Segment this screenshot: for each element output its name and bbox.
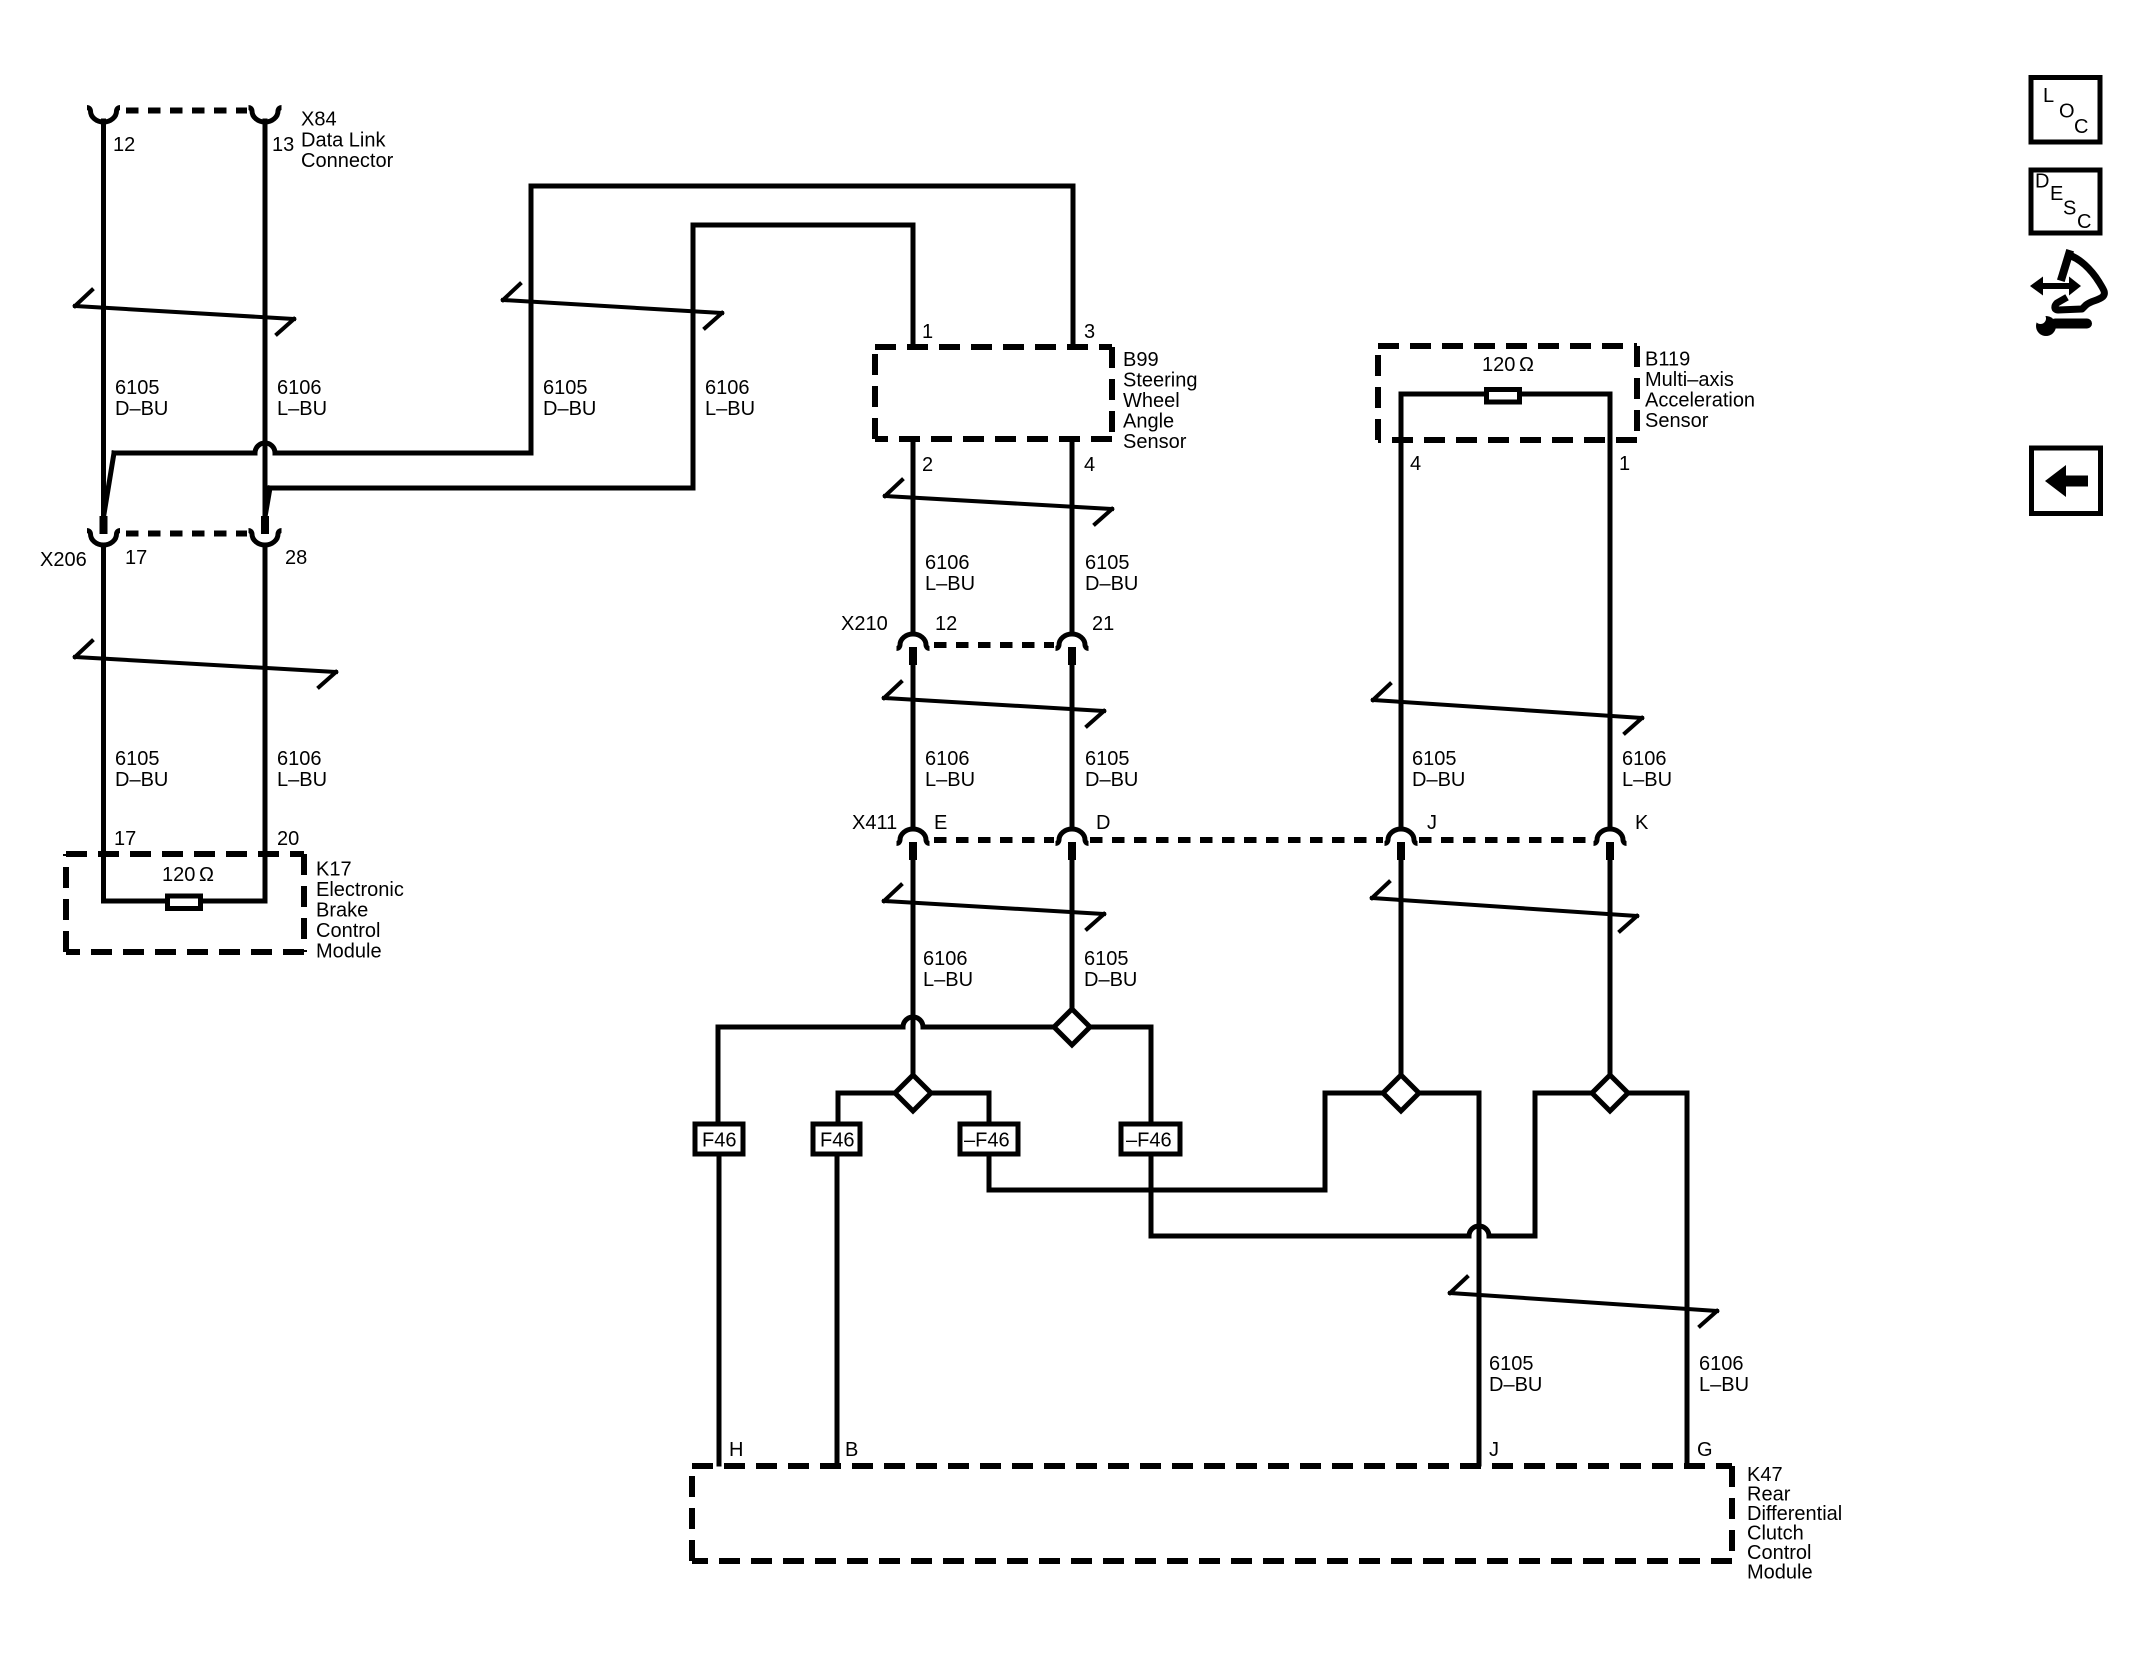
svg-text:Brake: Brake — [316, 900, 368, 922]
wire splice S1 to F46-4 drop — [1090, 1027, 1151, 1121]
svg-text:L–BU: L–BU — [277, 769, 327, 791]
svg-text:Connector: Connector — [301, 150, 394, 172]
svg-text:D–BU: D–BU — [115, 769, 168, 791]
connector X411 pin K stub — [1606, 842, 1614, 860]
wire branch y225 horizontal — [693, 225, 913, 488]
svg-text:E: E — [934, 812, 947, 834]
svg-text:1: 1 — [922, 321, 933, 343]
connector X206 pin 28 terminal — [249, 531, 282, 546]
wire 6106 X411-E down to splice — [911, 859, 916, 1077]
wire 6106 B99-2 to X210-12 — [911, 439, 916, 633]
wire label 6106 L-BU (row D left) — [923, 948, 973, 991]
wire splice S2 left to F46-2 — [838, 1093, 895, 1121]
connector X411 pin D terminal — [1056, 829, 1089, 844]
pin 3 label B99 — [1084, 321, 1095, 343]
svg-text:Sensor: Sensor — [1123, 431, 1187, 453]
splice diamond S1 — [1054, 1009, 1090, 1045]
splice diamond S2 — [895, 1075, 931, 1111]
twisted pair symbol T5 — [884, 682, 1104, 726]
pin 12 label X210 — [935, 613, 957, 635]
pin G label — [1697, 1439, 1713, 1461]
connector X210 pin 12 stub — [909, 647, 917, 665]
twisted pair symbol T8 — [1372, 882, 1637, 931]
connector X84 dashed mating line — [126, 108, 247, 114]
wire splice diagonal into X206-28 — [266, 488, 271, 514]
svg-text:B119: B119 — [1645, 349, 1690, 371]
svg-text:17: 17 — [114, 828, 136, 850]
wire label 6105 D-BU (row D right) — [1084, 948, 1137, 991]
icon DESC button — [2031, 170, 2100, 233]
svg-text:Acceleration: Acceleration — [1645, 390, 1755, 412]
resistor 120 ohm B119 — [1487, 390, 1520, 403]
svg-text:6106: 6106 — [1699, 1353, 1744, 1375]
value label 120 ohm B119 — [1482, 354, 1534, 376]
svg-text:6105: 6105 — [1085, 552, 1130, 574]
svg-text:2: 2 — [922, 454, 933, 476]
svg-text:Control: Control — [316, 920, 380, 942]
pin D label — [1096, 812, 1110, 834]
inline connector F46 box 2 — [813, 1124, 860, 1154]
svg-text:D: D — [1096, 812, 1110, 834]
wire label 6106 L-BU (row C mid) — [277, 748, 327, 791]
svg-text:120: 120 — [162, 864, 195, 886]
svg-text:6105: 6105 — [115, 748, 160, 770]
wire splice diagonal into X206-17 — [104, 453, 114, 514]
label F46 box2 — [820, 1130, 854, 1152]
wire label 6105 D-BU (row C x210) — [1085, 748, 1138, 791]
svg-text:20: 20 — [277, 828, 299, 850]
svg-text:D–BU: D–BU — [115, 398, 168, 420]
twisted pair symbol T6 — [884, 885, 1104, 929]
svg-text:D–BU: D–BU — [1085, 769, 1138, 791]
svg-text:6106: 6106 — [277, 377, 322, 399]
pin 17 label — [125, 547, 147, 569]
svg-text:Sensor: Sensor — [1645, 410, 1709, 432]
connector X206 pin 17 terminal — [87, 531, 120, 546]
module K17 dashed box — [66, 854, 304, 952]
pin 2 label B99 — [922, 454, 933, 476]
inline connector -F46 box 3 — [960, 1124, 1018, 1154]
pin 17 label K17 — [114, 828, 136, 850]
component B119 dashed box — [1378, 346, 1637, 440]
connector X411 pin J terminal — [1385, 829, 1418, 844]
wire 6105 X206-17 to K17-17 — [101, 546, 106, 901]
twisted pair symbol T2 — [503, 284, 722, 328]
svg-text:4: 4 — [1410, 453, 1421, 475]
pin J label K47 — [1489, 1439, 1499, 1461]
svg-text:D–BU: D–BU — [1489, 1374, 1542, 1396]
label X411 — [852, 812, 897, 834]
svg-text:L–BU: L–BU — [923, 969, 973, 991]
pin 21 label X210 — [1092, 613, 1114, 635]
pin E label — [934, 812, 947, 834]
wire label 6105 D-BU (row A left) — [115, 377, 168, 420]
resistor 120 ohm K17 — [168, 896, 201, 909]
svg-text:C: C — [2077, 211, 2091, 233]
svg-text:–F46: –F46 — [964, 1130, 1010, 1152]
svg-text:12: 12 — [935, 613, 957, 635]
pin K label — [1635, 812, 1649, 834]
svg-text:K17: K17 — [316, 859, 352, 881]
wire F46-1 to K47-H — [717, 1157, 722, 1464]
wire label 6105 D-BU (row C left) — [115, 748, 168, 791]
pin 28 label — [285, 547, 307, 569]
svg-text:L–BU: L–BU — [277, 398, 327, 420]
wire label 6105 D-BU (row C b119) — [1412, 748, 1465, 791]
wire 6106 X411-K down to splice — [1608, 859, 1613, 1077]
pin B label — [845, 1439, 858, 1461]
twisted pair symbol T7 — [1373, 684, 1642, 733]
label K17 Electronic Brake Control Module — [316, 859, 404, 963]
module K47 dashed box — [692, 1466, 1732, 1561]
svg-text:O: O — [2059, 101, 2075, 123]
svg-text:13: 13 — [272, 134, 294, 156]
svg-text:L–BU: L–BU — [1699, 1374, 1749, 1396]
twisted pair symbol T3 — [75, 641, 336, 687]
connector X411 pin J stub — [1397, 842, 1405, 860]
connector X206 pin 28 stub — [261, 516, 269, 534]
svg-text:28: 28 — [285, 547, 307, 569]
svg-text:6106: 6106 — [925, 748, 970, 770]
wire 6106 X84-13 to X206-28 — [263, 121, 268, 517]
icon back arrow button — [2032, 448, 2101, 514]
svg-text:L: L — [2043, 85, 2054, 107]
splice diamond S3 — [1383, 1075, 1419, 1111]
pin 12 label — [113, 134, 135, 156]
wire label 6105 D-BU (row E) — [1489, 1353, 1542, 1396]
connector X411 pin E terminal — [897, 829, 930, 844]
wire label 6106 L-BU (row A mid) — [277, 377, 327, 420]
svg-text:L–BU: L–BU — [925, 573, 975, 595]
wire splice S2 right to F46-3 — [931, 1093, 989, 1121]
wire label 6106 L-BU (row E) — [1699, 1353, 1749, 1396]
svg-text:12: 12 — [113, 134, 135, 156]
wire splice S4 to K47-G — [1628, 1093, 1687, 1464]
svg-text:3: 3 — [1084, 321, 1095, 343]
svg-text:B: B — [845, 1439, 858, 1461]
inline connector F46 box 1 — [695, 1124, 743, 1154]
wire F46-2 to K47-B — [835, 1157, 840, 1464]
label B119 Multi-axis Acceleration Sensor — [1645, 349, 1755, 433]
svg-text:6105: 6105 — [1489, 1353, 1534, 1375]
value label 120 ohm K17 — [162, 864, 214, 886]
svg-text:S: S — [2063, 198, 2076, 220]
label X84 Data Link Connector — [301, 109, 394, 173]
svg-text:Data Link: Data Link — [301, 130, 386, 152]
svg-text:X411: X411 — [852, 812, 897, 834]
svg-text:D: D — [2035, 171, 2049, 193]
wire label 6106 L-BU (row C b119) — [1622, 748, 1672, 791]
svg-text:C: C — [2074, 116, 2088, 138]
pin 4 label B99 — [1084, 454, 1095, 476]
connector X84 pin 13 terminal — [249, 108, 282, 123]
wire 6105 X411-J down to splice — [1399, 859, 1404, 1077]
svg-text:6106: 6106 — [923, 948, 968, 970]
pin 20 label K17 — [277, 828, 299, 850]
wire label 6105 D-BU (row A col C) — [543, 377, 596, 420]
wire 6106 X206-28 to K17-20 — [263, 546, 268, 901]
svg-text:L–BU: L–BU — [705, 398, 755, 420]
wire splice S3 to K47-J — [1419, 1093, 1479, 1464]
svg-text:–F46: –F46 — [1126, 1130, 1172, 1152]
svg-text:Multi–axis: Multi–axis — [1645, 369, 1734, 391]
twisted pair symbol T4 — [885, 480, 1112, 524]
svg-text:6106: 6106 — [705, 377, 750, 399]
pin 13 label — [272, 134, 294, 156]
svg-text:Module: Module — [316, 941, 382, 963]
wire label 6106 L-BU (row C x210) — [925, 748, 975, 791]
svg-text:X84: X84 — [301, 109, 337, 131]
svg-text:G: G — [1697, 1439, 1713, 1461]
svg-text:B99: B99 — [1123, 349, 1159, 371]
connector X411 dashed mating line segment D-J — [1090, 837, 1383, 843]
icon LOC button — [2031, 78, 2100, 143]
svg-text:F46: F46 — [702, 1130, 736, 1152]
wire branch F46-1 with hop over 6106 — [718, 1017, 1054, 1121]
connector X411 pin K terminal — [1594, 829, 1627, 844]
wire branch top horizontal y186 — [531, 186, 1073, 453]
connector X210 dashed mating line — [934, 642, 1054, 648]
wire 6106 X210-12 to X411-E — [911, 664, 916, 828]
svg-text:Wheel: Wheel — [1123, 390, 1180, 412]
svg-text:D–BU: D–BU — [1412, 769, 1465, 791]
svg-text:D–BU: D–BU — [543, 398, 596, 420]
pin 1 label B119 — [1619, 453, 1630, 475]
svg-text:Ω: Ω — [199, 864, 214, 886]
wire branch horizontal y488 — [270, 486, 693, 491]
wire branch horizontal y453 with hop over 6106 — [114, 443, 531, 453]
label X206 — [40, 549, 87, 571]
wire label 6105 D-BU (row B right) — [1085, 552, 1138, 595]
svg-text:X210: X210 — [841, 613, 888, 635]
pin 1 label B99 — [922, 321, 933, 343]
twisted pair symbol T1 — [75, 290, 294, 334]
connector X411 dashed mating line segment J-K — [1419, 837, 1592, 843]
connector X210 pin 12 terminal — [897, 634, 930, 649]
svg-text:6105: 6105 — [543, 377, 588, 399]
svg-text:6105: 6105 — [1085, 748, 1130, 770]
label -F46 box3 — [964, 1130, 1010, 1152]
wire 6105 X84-12 to X206-17 — [101, 121, 106, 517]
wire 6105 B119-4 to X411-J — [1399, 440, 1404, 828]
svg-text:X206: X206 — [40, 549, 87, 571]
svg-text:4: 4 — [1084, 454, 1095, 476]
label F46 box1 — [702, 1130, 736, 1152]
twisted pair symbol T9 — [1450, 1277, 1717, 1326]
wire F46-3 to splice S3 — [989, 1093, 1383, 1190]
connector X206 pin 17 stub — [100, 516, 108, 534]
svg-text:H: H — [729, 1439, 743, 1461]
pin 4 label B119 — [1410, 453, 1421, 475]
wire F46-4 to splice S4 with hop — [1151, 1093, 1590, 1236]
label -F46 box4 — [1126, 1130, 1172, 1152]
pin J label — [1427, 812, 1437, 834]
svg-text:6106: 6106 — [277, 748, 322, 770]
svg-text:120: 120 — [1482, 354, 1515, 376]
svg-text:21: 21 — [1092, 613, 1114, 635]
pin H label — [729, 1439, 743, 1461]
svg-text:17: 17 — [125, 547, 147, 569]
inline connector -F46 box 4 — [1121, 1124, 1180, 1154]
wire 6105 B99-4 to X210-21 — [1070, 439, 1075, 633]
svg-text:D–BU: D–BU — [1084, 969, 1137, 991]
splice diamond S4 — [1592, 1075, 1628, 1111]
icon double arrow with tool — [2030, 254, 2104, 336]
label X210 — [841, 613, 888, 635]
connector X411 pin E stub — [909, 842, 917, 860]
svg-text:D–BU: D–BU — [1085, 573, 1138, 595]
svg-text:J: J — [1427, 812, 1437, 834]
wire 6105 X210-21 to X411-D — [1070, 664, 1075, 828]
svg-text:6106: 6106 — [925, 552, 970, 574]
label B99 Steering Wheel Angle Sensor — [1123, 349, 1198, 453]
wire 6105 X411-D down to splice — [1070, 859, 1075, 1011]
connector X84 pin 12 terminal — [87, 108, 120, 123]
svg-text:L–BU: L–BU — [925, 769, 975, 791]
connector X210 pin 21 terminal — [1056, 634, 1089, 649]
svg-text:6105: 6105 — [115, 377, 160, 399]
svg-text:E: E — [2050, 183, 2063, 205]
svg-text:Angle: Angle — [1123, 411, 1174, 433]
svg-text:K: K — [1635, 812, 1649, 834]
svg-text:6105: 6105 — [1084, 948, 1129, 970]
wire 6106 B119-1 to X411-K — [1608, 440, 1613, 828]
label K47 Rear Differential Clutch Control Module — [1747, 1464, 1842, 1584]
connector X206 dashed mating line — [126, 531, 247, 537]
svg-text:L–BU: L–BU — [1622, 769, 1672, 791]
svg-text:Steering: Steering — [1123, 370, 1198, 392]
svg-text:1: 1 — [1619, 453, 1630, 475]
wire label 6106 L-BU (row A col D) — [705, 377, 755, 420]
connector X411 pin D stub — [1068, 842, 1076, 860]
wire label 6106 L-BU (row B left) — [925, 552, 975, 595]
wire K17 internal resistor link — [104, 899, 266, 904]
svg-text:Module: Module — [1747, 1562, 1813, 1584]
connector X411 dashed mating line segment E-D — [934, 837, 1054, 843]
svg-text:6105: 6105 — [1412, 748, 1457, 770]
svg-text:J: J — [1489, 1439, 1499, 1461]
wire B119 internal resistor link — [1401, 394, 1610, 440]
svg-text:Electronic: Electronic — [316, 879, 404, 901]
svg-text:F46: F46 — [820, 1130, 854, 1152]
connector X210 pin 21 stub — [1068, 647, 1076, 665]
svg-text:6106: 6106 — [1622, 748, 1667, 770]
component B99 dashed box — [875, 347, 1112, 439]
svg-text:Ω: Ω — [1519, 354, 1534, 376]
